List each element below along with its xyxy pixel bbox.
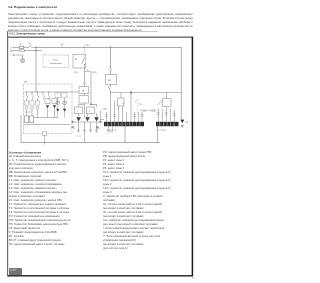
terminal strip X1	[104, 122, 144, 126]
lamp stems to lower bus	[27, 110, 38, 118]
lamp branch 2	[32, 92, 34, 101]
svg-text:и: и	[77, 111, 79, 113]
page number bottom right	[192, 277, 195, 280]
N wire to control unit	[24, 50, 41, 52]
junction dot left	[71, 121, 73, 123]
lamp circle 1	[25, 106, 28, 109]
svg-text:11 ВФ: 11 ВФ	[102, 108, 108, 111]
terminal circles	[13, 47, 14, 56]
component on box bottom	[43, 132, 47, 136]
terminal strip X2	[156, 122, 179, 126]
junction dot on distribution	[130, 91, 132, 93]
svg-text:сн 2 соед: сн 2 соед	[157, 130, 167, 132]
legend heading	[9, 151, 41, 154]
svg-text:ВФ: ВФ	[108, 79, 111, 82]
strip2 wires	[158, 107, 174, 122]
feeder switch blade	[108, 86, 110, 91]
strip1 wire b	[114, 101, 116, 122]
distribution wire y92.5	[111, 92, 182, 94]
arrow triangle 1	[46, 105, 49, 108]
PE arrow	[180, 120, 184, 123]
footer badge	[9, 268, 22, 275]
svg-text:РС: РС	[72, 128, 75, 130]
right cluster switch	[158, 100, 163, 105]
feeder switch dot	[110, 86, 111, 87]
L bus wire	[34, 47, 181, 119]
heading 4.3	[8, 5, 57, 9]
svg-text:В: В	[75, 59, 77, 61]
feeder connector ticks	[109, 68, 111, 70]
intro paragraph	[8, 12, 193, 32]
svg-text:и: и	[89, 111, 91, 113]
board small box right top 2	[62, 93, 67, 98]
board motor slashes	[57, 102, 66, 104]
board dash-dot box	[24, 84, 73, 134]
board arrow triangle 2	[63, 109, 66, 112]
svg-text:(РБ): (РБ)	[74, 72, 78, 74]
TB box stub	[84, 94, 86, 96]
svg-text:Щ3: Щ3	[86, 45, 90, 47]
figure title	[9, 32, 45, 35]
frame bottom border	[7, 275, 193, 277]
connector box left 1	[25, 116, 29, 123]
earth electrode circle	[21, 59, 25, 63]
switch box B	[73, 55, 86, 69]
triangle stems	[48, 109, 55, 118]
wire PE stub	[14, 55, 23, 59]
plug symbol 1	[140, 110, 148, 112]
figure title bar top rule	[7, 30, 158, 32]
strip X1 dividers	[108, 122, 140, 126]
relay box row label 2	[30, 101, 34, 105]
svg-text:N: N	[10, 50, 12, 53]
feeder junction dot	[110, 47, 112, 49]
diode arrow RV	[85, 117, 90, 121]
plug symbol 2	[149, 110, 157, 112]
junction dot right	[99, 121, 101, 123]
switch contact dot	[84, 64, 85, 65]
feeder lower wire	[110, 91, 112, 121]
svg-text:Щ2: Щ2	[60, 44, 64, 46]
return wire node tick	[44, 143, 46, 145]
N junction dot	[35, 50, 37, 52]
wire L from terminal	[14, 46, 19, 48]
arrow triangle 2	[53, 105, 56, 108]
svg-text:T: T	[9, 55, 11, 57]
svg-text:161718: 161718	[157, 124, 176, 126]
feeder drop x110	[110, 47, 112, 86]
return wire	[21, 115, 160, 143]
switch blade in box	[82, 58, 85, 64]
junction node A	[35, 47, 37, 49]
svg-text:123456789: 123456789	[105, 124, 132, 126]
wire into TA box	[84, 84, 86, 87]
lamp circle 2	[30, 106, 33, 109]
legend left column	[9, 154, 70, 246]
connector box left 2	[30, 116, 34, 123]
diode arrow RO	[94, 117, 99, 121]
lamp circle 3	[36, 106, 39, 109]
bottom link wire	[73, 121, 101, 123]
PE earth bars	[181, 125, 184, 127]
wire to bus	[31, 46, 34, 48]
frame top rule	[7, 36, 192, 38]
relay box row label 3	[35, 101, 39, 105]
connector ticks above strip1	[105, 115, 143, 117]
connector pair marks	[83, 82, 86, 84]
fan box VF	[106, 75, 117, 85]
wire below switch box	[84, 64, 86, 81]
lamp branch 4	[43, 92, 45, 100]
riser to strip1	[101, 111, 105, 123]
under strip1 stems	[109, 126, 113, 130]
wire below TA	[79, 103, 85, 118]
wire after fuse	[24, 46, 27, 48]
svg-text:PE: PE	[185, 122, 188, 124]
diode arrow RS	[76, 117, 81, 121]
sensor curve	[135, 100, 137, 103]
earth electrode hatch	[22, 59, 24, 62]
lower bus inside board	[25, 117, 59, 119]
lamp branch 5	[49, 92, 51, 100]
svg-text:св тм рб: св тм рб	[24, 112, 31, 114]
thermostat TB box	[79, 96, 89, 104]
wire bus to switch box	[84, 47, 86, 55]
pump box P1	[75, 107, 83, 114]
svg-text:х у z: х у z	[77, 136, 81, 138]
coil out wires	[119, 106, 123, 122]
svg-text:(РБ): (РБ)	[93, 72, 97, 74]
stems pump to arrows	[79, 114, 97, 118]
return wire stub x44	[44, 135, 46, 143]
N series component	[20, 50, 25, 52]
svg-text:ЭБ: ЭБ	[24, 81, 28, 83]
svg-text:ТЗ): ТЗ)	[139, 104, 142, 106]
relay box row label 1	[24, 101, 28, 105]
svg-text:L: L	[10, 46, 12, 49]
svg-text:Ф: Ф	[20, 43, 22, 46]
cluster to return	[84, 133, 86, 143]
lamp branch 3	[38, 92, 40, 101]
dashed sensor wire	[136, 100, 138, 116]
jog wire to RB right	[85, 72, 92, 75]
junction dot RB drop	[90, 103, 92, 105]
svg-text:ТА: ТА	[82, 90, 85, 93]
strip1 wire c	[127, 112, 142, 122]
internal bus	[25, 91, 80, 93]
coil stem	[120, 93, 122, 99]
cluster stems down	[79, 122, 97, 133]
relay coil box	[118, 98, 125, 106]
strip X2 dividers	[160, 122, 175, 126]
cluster stem circles	[78, 129, 80, 131]
board motor circle 1	[56, 101, 60, 105]
thermostat TA box	[79, 87, 89, 94]
wire drop x34 to control area	[35, 47, 37, 92]
pump box P2	[87, 107, 95, 114]
svg-text:Блок: Блок	[53, 59, 58, 61]
box above triangle 1	[45, 99, 50, 104]
board motor circle 2	[63, 101, 67, 105]
under strip1 circles	[108, 131, 110, 133]
svg-text:Щ: Щ	[29, 44, 31, 46]
fuse F	[19, 46, 24, 48]
right cluster box	[163, 99, 172, 107]
control unit dashed box	[43, 55, 69, 68]
wire N	[14, 50, 20, 52]
drop x131	[130, 93, 132, 122]
lower bus 2	[24, 124, 70, 126]
internal bus junction dots	[26, 91, 49, 92]
right cluster stem	[166, 93, 168, 99]
lamp circle slashes	[26, 107, 39, 109]
frame right border	[191, 37, 193, 277]
board small box right top 1	[55, 93, 60, 98]
box above triangle 2	[52, 99, 57, 104]
board arrow stems	[58, 98, 65, 118]
node tick x62	[61, 46, 63, 48]
lamp branch 1	[27, 92, 29, 101]
node tick x84	[84, 46, 86, 48]
board arrow triangle 1	[56, 109, 59, 112]
frame left border	[7, 31, 9, 276]
legend right column	[103, 150, 170, 250]
strip1 wire a	[106, 112, 108, 122]
svg-text:Тм: Тм	[86, 69, 89, 71]
wire RB right drop	[91, 75, 97, 107]
svg-text:управления: управления	[50, 63, 63, 65]
connector ticks above strip2	[157, 112, 175, 115]
switch Щ blade	[27, 46, 31, 49]
